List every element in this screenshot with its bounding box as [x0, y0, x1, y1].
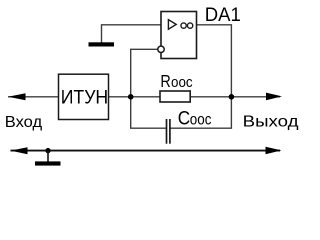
arrowhead: input terminal (left, main line): [8, 93, 26, 100]
wire: bottom common rail: [11, 150, 281, 152]
svg-text:DA1: DA1: [205, 4, 241, 26]
ground: op-amp non-inverting input: [89, 42, 115, 46]
svg-text:Выход: Выход: [243, 114, 299, 131]
label Cooc: [178, 108, 212, 130]
wire: feedback loop, node A down through capacitor branch: [131, 97, 166, 128]
svg-text:Вход: Вход: [5, 114, 42, 131]
wire: node A up to inverting input of op-amp: [131, 49, 158, 97]
node B junction dot: [229, 94, 235, 100]
svg-text:R: R: [160, 71, 170, 91]
node: common rail ground junction dot: [45, 148, 50, 153]
wire: non-inverting input to ground: [102, 25, 162, 43]
wire: capacitor to node B (feedback loop right side): [170, 97, 231, 128]
svg-text:оос: оос: [171, 75, 193, 91]
wire: main signal line (input to output): [8, 96, 280, 98]
block ИТУН (voltage-to-current converter): [59, 74, 109, 119]
inversion bubble: op-amp inverting input: [158, 46, 164, 52]
resistor Rooc: [160, 91, 190, 102]
arrowhead: output terminal (right, main line): [266, 93, 282, 101]
arrowhead: common rail right: [266, 147, 282, 155]
svg-text:ИТУН: ИТУН: [61, 86, 108, 108]
capacitor Cooc (plates): [167, 119, 170, 144]
op-amp DA1: [161, 12, 197, 59]
node A junction dot: [128, 94, 134, 100]
wire: op-amp output down to node B: [197, 25, 232, 97]
label Rooc: [160, 71, 193, 91]
svg-text:оос: оос: [190, 112, 212, 129]
arrowhead: common rail left: [11, 147, 28, 154]
ground: signal common on bottom rail: [35, 151, 61, 166]
svg-text:C: C: [178, 108, 190, 130]
